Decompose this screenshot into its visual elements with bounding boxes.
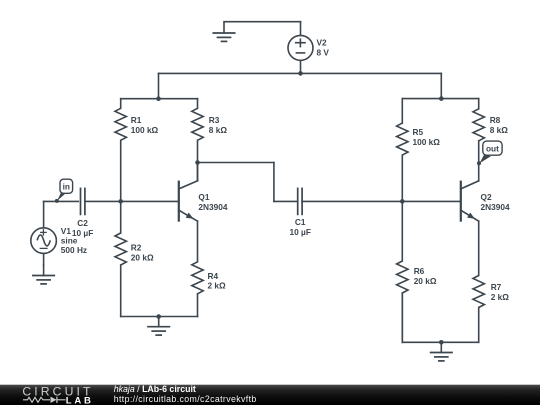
svg-text:8 V: 8 V: [317, 47, 330, 57]
svg-text:R7: R7: [491, 282, 502, 292]
wire (power rail): [159, 72, 442, 74]
ground (top, V2 positive): [213, 23, 234, 42]
voltage source V1: [31, 226, 87, 255]
svg-text:500 Hz: 500 Hz: [61, 245, 87, 255]
svg-text:10 µF: 10 µF: [290, 227, 311, 237]
resistor R2: [115, 233, 154, 317]
node (Q1 collector junction): [195, 160, 200, 165]
wire: [401, 155, 403, 261]
svg-text:hkaja / LAb-6 circuit: hkaja / LAb-6 circuit: [114, 384, 196, 394]
transistor Q2: [461, 181, 510, 276]
wire: [302, 200, 461, 202]
node (left feed junction): [156, 96, 161, 101]
node (V2 to rail junction): [298, 71, 303, 76]
wire: [440, 73, 442, 98]
wire: [273, 163, 275, 202]
svg-text:C2: C2: [77, 218, 88, 228]
svg-text:R6: R6: [414, 266, 425, 276]
node (right feed junction): [439, 96, 444, 101]
wire: [43, 253, 45, 265]
svg-text:V1: V1: [61, 226, 72, 236]
resistor R7: [473, 276, 509, 343]
svg-text:V2: V2: [317, 38, 328, 48]
svg-text:out: out: [486, 143, 499, 153]
wire: [402, 98, 478, 100]
svg-text:R1: R1: [131, 115, 142, 125]
resistor R5: [397, 99, 441, 156]
voltage source V2: [288, 35, 329, 60]
wire: [300, 60, 302, 73]
wire: [44, 200, 79, 202]
svg-text:10 µF: 10 µF: [72, 228, 93, 238]
svg-text:in: in: [63, 181, 70, 191]
svg-text:20 kΩ: 20 kΩ: [414, 276, 437, 286]
svg-text:C1: C1: [295, 217, 306, 227]
svg-text:R3: R3: [209, 115, 220, 125]
wire: [120, 140, 122, 233]
svg-text:Q2: Q2: [481, 192, 492, 202]
svg-text:Q1: Q1: [198, 192, 209, 202]
node (right ground junction): [439, 340, 444, 345]
svg-text:LAB: LAB: [66, 395, 94, 405]
svg-text:2N3904: 2N3904: [481, 202, 510, 212]
footer credit text: [114, 384, 257, 404]
svg-text:8 kΩ: 8 kΩ: [490, 125, 509, 135]
svg-text:20 kΩ: 20 kΩ: [131, 252, 154, 262]
resistor R1: [115, 99, 159, 141]
node (R1-R2 to Q1 base junction): [118, 199, 123, 204]
node (R5-R6 to Q2 base junction): [400, 199, 405, 204]
node (left ground junction): [156, 314, 161, 319]
wire: [224, 21, 301, 23]
wire: [198, 162, 274, 164]
resistor R4: [192, 262, 226, 317]
footer bar: [0, 385, 540, 405]
resistor R6: [397, 261, 437, 342]
wire: [401, 293, 403, 342]
capacitor C1: [290, 188, 311, 237]
wire: [85, 200, 179, 202]
wire: [300, 22, 302, 36]
wire: [274, 200, 298, 202]
svg-text:http://circuitlab.com/c2catrve: http://circuitlab.com/c2catrvekvftb: [114, 394, 257, 404]
svg-text:R2: R2: [131, 243, 142, 253]
svg-text:2 kΩ: 2 kΩ: [208, 281, 227, 291]
wire: [478, 141, 480, 181]
svg-text:2 kΩ: 2 kΩ: [491, 292, 510, 302]
svg-text:2N3904: 2N3904: [198, 202, 227, 212]
ground (V1): [33, 265, 54, 284]
wire: [158, 73, 160, 98]
svg-text:R5: R5: [413, 127, 424, 137]
CircuitLab logo: [22, 384, 93, 406]
wire: [402, 341, 478, 343]
svg-text:8 kΩ: 8 kΩ: [209, 125, 228, 135]
svg-text:100 kΩ: 100 kΩ: [131, 125, 159, 135]
transistor Q1: [179, 163, 228, 262]
wire: [121, 98, 198, 100]
wire: [43, 201, 45, 227]
node flag out: [477, 141, 502, 165]
capacitor C2: [72, 188, 93, 238]
svg-text:R8: R8: [490, 115, 501, 125]
wire: [121, 316, 198, 318]
svg-text:R4: R4: [208, 271, 219, 281]
node flag in: [55, 179, 73, 203]
ground (left stage): [148, 317, 169, 336]
resistor R3: [192, 99, 228, 141]
ground (right stage): [431, 342, 452, 361]
svg-text:100 kΩ: 100 kΩ: [413, 137, 441, 147]
wire: [197, 140, 199, 180]
resistor R8: [473, 99, 508, 141]
